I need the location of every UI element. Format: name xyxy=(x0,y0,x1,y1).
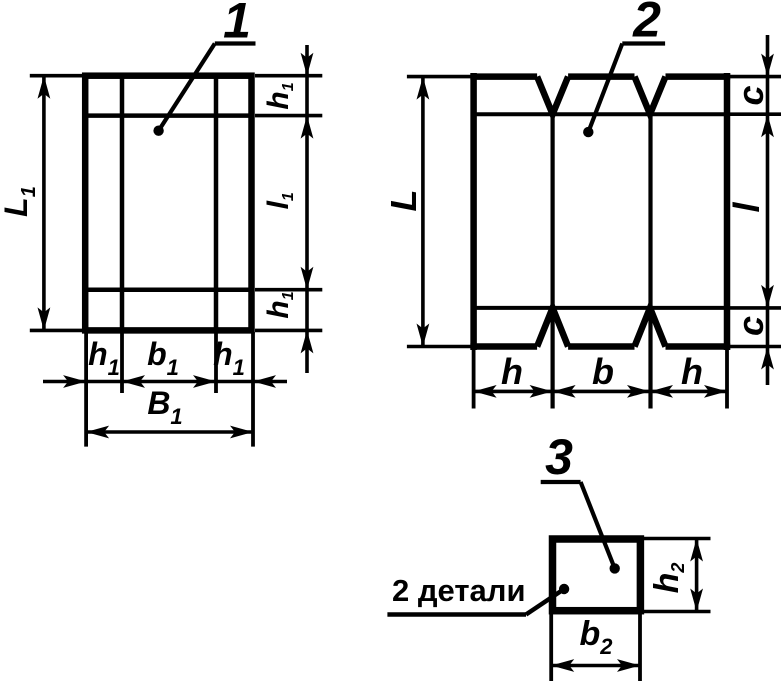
svg-text:c: c xyxy=(730,316,771,336)
svg-text:2: 2 xyxy=(632,0,661,48)
svg-text:1: 1 xyxy=(223,0,251,49)
svg-text:3: 3 xyxy=(545,429,573,485)
svg-text:c: c xyxy=(730,85,771,105)
svg-text:2 детали: 2 детали xyxy=(392,573,526,608)
svg-text:l: l xyxy=(726,202,767,213)
svg-text:h: h xyxy=(681,351,703,392)
svg-text:L: L xyxy=(383,190,424,212)
svg-text:b: b xyxy=(592,351,614,392)
svg-text:h: h xyxy=(501,351,523,392)
